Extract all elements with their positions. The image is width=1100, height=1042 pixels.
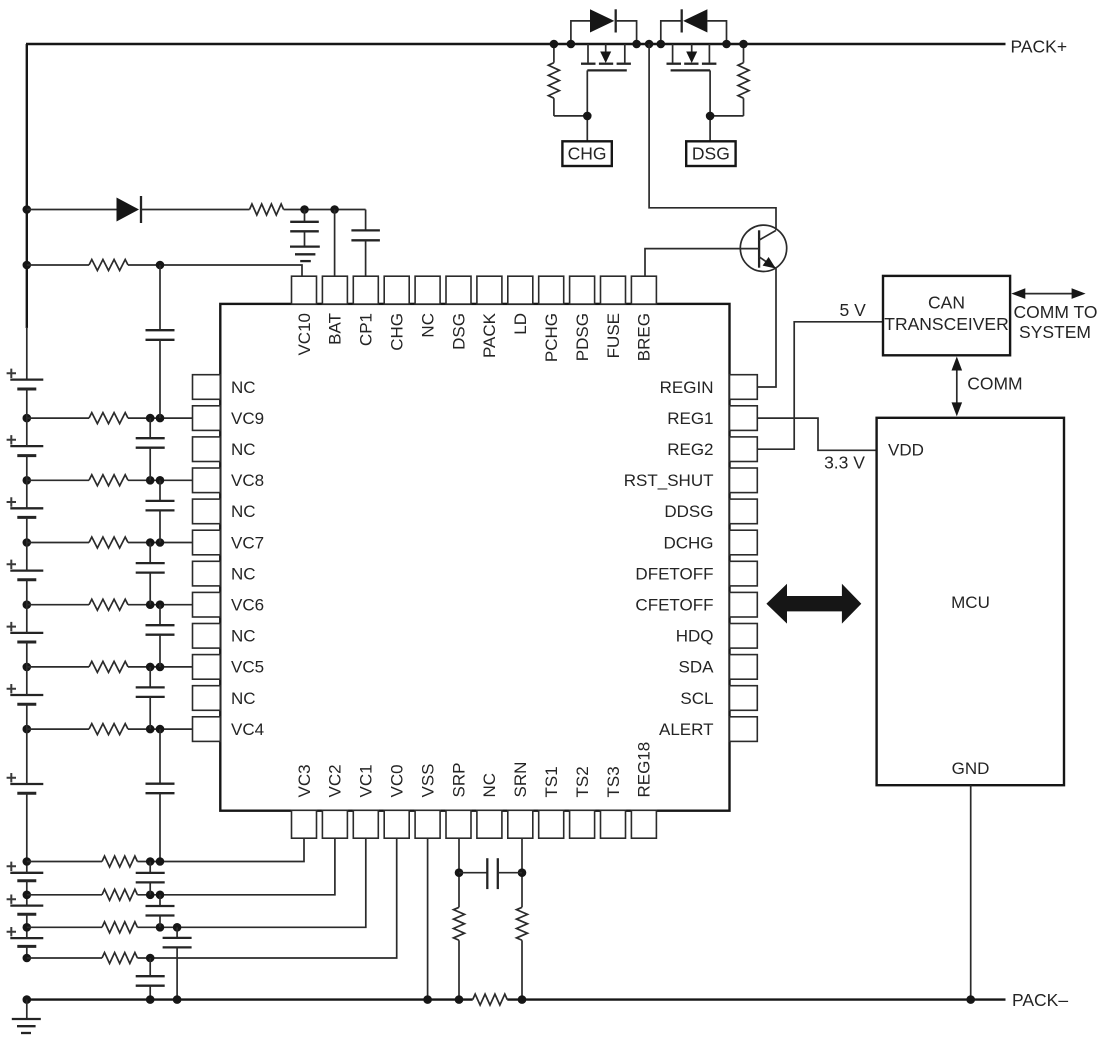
pin left VC5 bbox=[193, 655, 265, 680]
capacitor VC9-VC8 filter bbox=[136, 418, 165, 480]
node CAN transceiver box bbox=[883, 276, 1010, 355]
wire VC4 tap bbox=[27, 728, 89, 730]
svg-text:REG1: REG1 bbox=[667, 409, 713, 428]
battery cell 1 bbox=[7, 369, 44, 389]
wire battery stack top segment bbox=[26, 44, 28, 328]
pin top PCHG bbox=[539, 276, 564, 362]
capacitor VC5-VC4 filter bbox=[136, 667, 165, 729]
resistor SRP sense filter bbox=[454, 907, 465, 940]
wire SRN pin lead bbox=[521, 839, 523, 908]
junction VC1 left cap bbox=[156, 923, 165, 932]
wire SRP pin lead bbox=[458, 839, 460, 908]
wire diode to resistor bbox=[141, 209, 250, 211]
wire battery cell 4 bottom lead bbox=[26, 580, 28, 605]
pin right DDSG bbox=[664, 499, 757, 524]
svg-text:CFETOFF: CFETOFF bbox=[635, 596, 713, 615]
svg-text:RST_SHUT: RST_SHUT bbox=[624, 471, 714, 490]
resistor BAT filter bbox=[250, 204, 284, 215]
junction battery VC0 tap bbox=[23, 954, 32, 963]
svg-text:NC: NC bbox=[231, 502, 256, 521]
pin left NC bbox=[193, 499, 256, 524]
svg-text:TRANSCEIVER: TRANSCEIVER bbox=[884, 314, 1008, 334]
wire battery cell 3 bottom lead bbox=[26, 517, 28, 542]
junction battery VC7 tap bbox=[23, 538, 32, 547]
wire battery link 8 bbox=[26, 895, 28, 906]
wire PACK- rail left bbox=[27, 998, 473, 1000]
pin bottom TS1 bbox=[539, 766, 564, 838]
junction CHG gate node bbox=[583, 112, 592, 121]
transistor Q3 NPN bbox=[740, 225, 786, 271]
capacitor VC6-VC5 filter bbox=[146, 605, 175, 667]
battery cell 10 bbox=[7, 927, 44, 946]
diode D1 BAT input bbox=[117, 196, 142, 223]
pin bottom VC2 bbox=[322, 764, 347, 838]
pin right REG2 bbox=[667, 437, 757, 462]
junction battery top BAT net bbox=[23, 205, 32, 214]
pin top VC10 bbox=[292, 276, 317, 355]
wire VC6 to pin bbox=[128, 604, 193, 606]
junction VSS rail bbox=[423, 995, 432, 1004]
pin left NC bbox=[193, 561, 256, 586]
wire VC3 to pin bbox=[137, 839, 304, 862]
transistor CHG MOSFET body diode bbox=[571, 9, 637, 44]
wire PACK- rail right bbox=[507, 998, 1005, 1000]
pin bottom SRP bbox=[446, 763, 471, 839]
wire BAT node bbox=[284, 209, 366, 211]
capacitor CP1 series bbox=[351, 210, 380, 277]
wire battery link 1 bbox=[26, 418, 28, 446]
pin left VC6 bbox=[193, 592, 265, 617]
pin right SCL bbox=[680, 686, 757, 711]
wire battery link 7 bbox=[26, 862, 28, 873]
svg-text:NC: NC bbox=[480, 773, 499, 798]
junction battery VC5 tap bbox=[23, 663, 32, 672]
pin right CFETOFF bbox=[635, 592, 757, 617]
pin top BAT bbox=[322, 276, 347, 345]
capacitor VC0 to PACK- filter bbox=[136, 958, 165, 1000]
junction SRP cap node bbox=[455, 868, 464, 877]
svg-text:REG2: REG2 bbox=[667, 440, 713, 459]
junction VC4 left cap column bbox=[146, 725, 155, 734]
capacitor BAT bypass bbox=[290, 210, 319, 247]
transistor CHG MOSFET Q1 bbox=[581, 44, 631, 70]
capacitor VC4-VC3 filter bbox=[146, 729, 175, 861]
svg-text:NC: NC bbox=[231, 440, 256, 459]
wire VC10 net bbox=[27, 264, 89, 266]
pin right ALERT bbox=[659, 717, 757, 742]
battery cell 4 bbox=[7, 560, 44, 580]
svg-text:VC6: VC6 bbox=[231, 596, 264, 615]
pin top DSG bbox=[446, 276, 471, 350]
wire DSG gate lead bbox=[709, 70, 711, 141]
capacitor VC2-VC1 filter bbox=[146, 895, 175, 928]
junction battery VC3 tap bbox=[23, 857, 32, 866]
wire VC5 to pin bbox=[128, 666, 193, 668]
resistor SRN sense filter bbox=[517, 907, 528, 940]
transistor DSG MOSFET Q2 bbox=[667, 44, 717, 70]
junction CHG rail resistor bbox=[550, 40, 559, 49]
junction VC8 right cap column bbox=[156, 476, 165, 485]
battery cell 9 bbox=[7, 895, 44, 915]
transistor DSG MOSFET body diode bbox=[661, 9, 727, 44]
pin right REG1 bbox=[667, 406, 757, 431]
junction VC9 right cap column bbox=[156, 414, 165, 423]
resistor VC4 input bbox=[89, 724, 128, 735]
svg-text:VC0: VC0 bbox=[388, 764, 407, 797]
svg-text:VC1: VC1 bbox=[357, 764, 376, 797]
pin right SDA bbox=[679, 655, 758, 680]
svg-text:PDSG: PDSG bbox=[573, 313, 592, 361]
junction SRN cap node bbox=[518, 868, 527, 877]
capacitor VC10-VC9 filter bbox=[146, 265, 175, 418]
pin left NC bbox=[193, 437, 256, 462]
junction VC6 left cap column bbox=[146, 600, 155, 609]
pin top FUSE bbox=[601, 276, 626, 358]
junction battery VC1 tap bbox=[23, 923, 32, 932]
svg-text:SRN: SRN bbox=[511, 762, 530, 798]
junction VC10 filter cap bbox=[156, 261, 165, 270]
pin right HDQ bbox=[676, 624, 758, 649]
wire CHG gate lead bbox=[586, 70, 588, 141]
wire VC0 to pin bbox=[137, 839, 396, 958]
svg-text:HDQ: HDQ bbox=[676, 627, 714, 646]
pin bottom TS2 bbox=[570, 766, 595, 838]
junction VC5 right cap column bbox=[156, 663, 165, 672]
svg-text:NC: NC bbox=[231, 378, 256, 397]
pin top BREG bbox=[631, 276, 656, 361]
svg-text:SDA: SDA bbox=[679, 658, 715, 677]
wire SRN resistor to rail bbox=[521, 940, 523, 999]
svg-text:BAT: BAT bbox=[326, 313, 345, 345]
svg-text:5 V: 5 V bbox=[840, 300, 867, 320]
pin left VC4 bbox=[193, 717, 265, 742]
ground main bbox=[12, 1019, 41, 1033]
wire battery to ground bbox=[26, 1000, 28, 1019]
svg-text:SRP: SRP bbox=[449, 763, 468, 798]
pin bottom VC3 bbox=[292, 764, 317, 838]
pin bottom VC0 bbox=[384, 764, 409, 838]
pin right DCHG bbox=[663, 530, 757, 555]
wire battery link 2 bbox=[26, 480, 28, 508]
pin right REGIN bbox=[660, 375, 758, 400]
junction battery VC6 tap bbox=[23, 600, 32, 609]
junction DSG diode cathode bbox=[657, 40, 666, 49]
svg-text:PCHG: PCHG bbox=[542, 313, 561, 362]
wire battery cell 5 bottom lead bbox=[26, 642, 28, 667]
junction MCU GND rail bbox=[966, 995, 975, 1004]
svg-text:ALERT: ALERT bbox=[659, 720, 714, 739]
junction rail VC1 cap bbox=[173, 995, 182, 1004]
node COMM TO SYSTEM label bbox=[1014, 302, 1098, 342]
node MCU box bbox=[877, 418, 1064, 785]
junction VC7 right cap column bbox=[156, 538, 165, 547]
svg-text:3.3 V: 3.3 V bbox=[824, 453, 865, 473]
svg-text:PACK–: PACK– bbox=[1012, 990, 1068, 1010]
wire host interface double arrow bbox=[766, 584, 861, 624]
junction VC9 left cap column bbox=[146, 414, 155, 423]
svg-text:NC: NC bbox=[231, 627, 256, 646]
wire battery cell 6 bottom lead bbox=[26, 704, 28, 729]
resistor VC3 input bbox=[102, 856, 137, 867]
resistor VC1 input bbox=[102, 922, 137, 933]
svg-text:LD: LD bbox=[511, 313, 530, 335]
resistor PACK- sense link bbox=[473, 994, 508, 1005]
svg-text:VDD: VDD bbox=[888, 441, 924, 460]
junction VC2 right cap bbox=[156, 891, 165, 900]
pin top NC bbox=[415, 276, 440, 337]
svg-text:TS1: TS1 bbox=[542, 766, 561, 797]
battery cell 6 bbox=[7, 684, 44, 704]
wire battery cell 10 bottom lead bbox=[26, 946, 28, 958]
junction battery VC2 tap bbox=[23, 891, 32, 900]
pin bottom VSS bbox=[415, 763, 440, 838]
node CHG driver box bbox=[562, 141, 611, 166]
capacitor VC8-VC7 filter bbox=[146, 480, 175, 542]
svg-text:NC: NC bbox=[418, 313, 437, 338]
svg-text:CP1: CP1 bbox=[357, 313, 376, 346]
svg-text:CHG: CHG bbox=[568, 144, 607, 164]
wire VC9 tap bbox=[27, 417, 89, 419]
wire battery link 9 bbox=[26, 927, 28, 938]
pin bottom NC bbox=[477, 773, 502, 838]
wire MCU GND to rail bbox=[970, 785, 972, 999]
junction VC0 cap bbox=[146, 954, 155, 963]
pin left NC bbox=[193, 686, 256, 711]
pin left NC bbox=[193, 375, 256, 400]
junction rail VC0 cap bbox=[146, 995, 155, 1004]
pin bottom SRN bbox=[508, 762, 533, 839]
battery cell 5 bbox=[7, 622, 44, 642]
svg-text:VC7: VC7 bbox=[231, 533, 264, 552]
svg-text:SYSTEM: SYSTEM bbox=[1019, 322, 1091, 342]
wire VC7 tap bbox=[27, 542, 89, 544]
junction battery VC9 tap bbox=[23, 414, 32, 423]
wire VC10 to pin bbox=[128, 265, 302, 276]
capacitor sense differential bbox=[459, 858, 522, 889]
pin right DFETOFF bbox=[635, 561, 757, 586]
wire transistor emitter to REGIN bbox=[757, 268, 776, 387]
junction VC4 right cap column bbox=[156, 725, 165, 734]
pin bottom TS3 bbox=[601, 766, 626, 838]
wire VC3 tap bbox=[27, 861, 102, 863]
wire battery link 3 bbox=[26, 543, 28, 571]
svg-text:PACK+: PACK+ bbox=[1011, 36, 1068, 56]
resistor VC0 input bbox=[102, 953, 137, 964]
svg-text:VC2: VC2 bbox=[326, 764, 345, 797]
junction VC5 left cap column bbox=[146, 663, 155, 672]
junction CHG diode cathode bbox=[632, 40, 641, 49]
junction battery VC4 tap bbox=[23, 725, 32, 734]
wire battery link 6 bbox=[26, 729, 28, 784]
battery cell 8 bbox=[7, 862, 44, 881]
pin top LD bbox=[508, 276, 533, 335]
svg-text:REG18: REG18 bbox=[635, 742, 654, 798]
battery cell 3 bbox=[7, 497, 44, 517]
svg-text:PACK: PACK bbox=[480, 312, 499, 358]
wire battery cell 8 bottom lead bbox=[26, 881, 28, 895]
pin right RST_SHUT bbox=[624, 468, 758, 493]
pin left VC7 bbox=[193, 530, 265, 555]
resistor VC5 input bbox=[89, 661, 128, 672]
svg-text:VC5: VC5 bbox=[231, 658, 264, 677]
svg-text:MCU: MCU bbox=[951, 593, 990, 612]
junction VC3 right cap bbox=[156, 857, 165, 866]
pin bottom REG18 bbox=[631, 742, 656, 838]
junction VC8 left cap column bbox=[146, 476, 155, 485]
svg-text:DCHG: DCHG bbox=[663, 533, 713, 552]
capacitor VC3-VC2 filter bbox=[136, 862, 165, 895]
junction VC6 right cap column bbox=[156, 600, 165, 609]
junction battery VC8 tap bbox=[23, 476, 32, 485]
resistor VC6 input bbox=[89, 599, 128, 610]
junction DSG rail resistor bbox=[739, 40, 748, 49]
svg-text:SCL: SCL bbox=[680, 689, 713, 708]
wire FET node to transistor collector bbox=[649, 44, 776, 230]
junction DSG gate node bbox=[706, 112, 715, 121]
svg-text:DSG: DSG bbox=[692, 144, 730, 164]
ground BAT bypass bbox=[290, 247, 320, 262]
svg-text:VC8: VC8 bbox=[231, 471, 264, 490]
junction VC1 right cap bbox=[173, 923, 182, 932]
wire COMM arrow CAN-MCU bbox=[952, 357, 963, 417]
resistor VC8 input bbox=[89, 475, 128, 486]
op-amp U1 battery monitor IC body bbox=[220, 304, 729, 811]
pin bottom VC1 bbox=[353, 764, 378, 838]
svg-text:DFETOFF: DFETOFF bbox=[635, 564, 713, 583]
junction VC7 left cap column bbox=[146, 538, 155, 547]
svg-text:VC10: VC10 bbox=[295, 313, 314, 356]
pin left VC9 bbox=[193, 406, 265, 431]
svg-text:TS3: TS3 bbox=[604, 766, 623, 797]
svg-text:CAN: CAN bbox=[928, 293, 965, 313]
svg-text:REGIN: REGIN bbox=[660, 378, 714, 397]
wire VC4 to pin bbox=[128, 728, 193, 730]
pin top CHG bbox=[384, 276, 409, 351]
junction rail battery bbox=[23, 995, 32, 1004]
wire COMM TO SYSTEM arrow bbox=[1011, 288, 1085, 299]
resistor VC10 input bbox=[89, 260, 128, 271]
svg-text:TS2: TS2 bbox=[573, 766, 592, 797]
battery cell 7 bbox=[7, 773, 44, 793]
wire VC7 to pin bbox=[128, 542, 193, 544]
svg-text:FUSE: FUSE bbox=[604, 313, 623, 358]
svg-text:COMM: COMM bbox=[967, 374, 1022, 394]
junction SRN rail bbox=[518, 995, 527, 1004]
pin left NC bbox=[193, 624, 256, 649]
wire BAT net left bbox=[27, 209, 117, 211]
junction BAT bypass cap bbox=[300, 205, 309, 214]
svg-text:CHG: CHG bbox=[388, 313, 407, 351]
resistor VC2 input bbox=[102, 889, 137, 900]
junction VC2 left cap bbox=[146, 891, 155, 900]
wire VC9 to pin bbox=[128, 417, 193, 419]
wire battery cell 9 bottom lead bbox=[26, 914, 28, 927]
pin left VC8 bbox=[193, 468, 265, 493]
svg-text:DSG: DSG bbox=[449, 313, 468, 350]
pin top CP1 bbox=[353, 276, 378, 346]
wire VC8 tap bbox=[27, 479, 89, 481]
wire VC1 to pin bbox=[137, 839, 365, 928]
wire BAT pin bbox=[334, 210, 336, 277]
capacitor VC7-VC6 filter bbox=[136, 543, 165, 605]
wire battery cell 2 bottom lead bbox=[26, 456, 28, 481]
wire VC2 tap bbox=[27, 894, 102, 896]
junction SRP rail bbox=[455, 995, 464, 1004]
wire VC5 tap bbox=[27, 666, 89, 668]
wire SRP resistor to rail bbox=[458, 940, 460, 999]
wire VSS to rail bbox=[427, 839, 429, 1000]
wire VC6 tap bbox=[27, 604, 89, 606]
wire VC0 tap bbox=[27, 957, 102, 959]
wire REG1 to 3.3V bbox=[757, 418, 877, 450]
svg-text:VC9: VC9 bbox=[231, 409, 264, 428]
svg-text:BREG: BREG bbox=[635, 313, 654, 361]
svg-text:DDSG: DDSG bbox=[664, 502, 713, 521]
pin top PACK bbox=[477, 276, 502, 358]
pin top PDSG bbox=[570, 276, 595, 361]
wire VC1 tap bbox=[27, 926, 102, 928]
svg-text:NC: NC bbox=[231, 564, 256, 583]
resistor VC7 input bbox=[89, 537, 128, 548]
resistor CHG gate pulldown bbox=[548, 44, 587, 116]
wire battery cell 1 bottom lead bbox=[26, 389, 28, 418]
junction BAT pin wire bbox=[330, 205, 339, 214]
junction battery VC10 net bbox=[23, 261, 32, 270]
wire battery link 5 bbox=[26, 667, 28, 695]
battery cell 2 bbox=[7, 435, 44, 456]
capacitor VC1 to PACK- filter bbox=[163, 927, 192, 999]
svg-text:VC3: VC3 bbox=[295, 764, 314, 797]
wire PACK+ rail bbox=[26, 43, 1006, 45]
wire battery cell 7 bottom lead bbox=[26, 793, 28, 861]
svg-text:VSS: VSS bbox=[418, 763, 437, 797]
junction CHG diode anode bbox=[567, 40, 576, 49]
junction DSG diode anode bbox=[722, 40, 731, 49]
junction VC3 left cap bbox=[146, 857, 155, 866]
svg-text:GND: GND bbox=[952, 759, 990, 778]
wire VC2 to pin bbox=[137, 839, 335, 895]
svg-text:COMM TO: COMM TO bbox=[1014, 302, 1098, 322]
wire VC8 to pin bbox=[128, 479, 193, 481]
svg-text:VC4: VC4 bbox=[231, 720, 264, 739]
wire battery link 4 bbox=[26, 605, 28, 633]
wire BREG to transistor base bbox=[645, 249, 759, 277]
wire REG2 to 5V bbox=[757, 322, 883, 449]
resistor VC9 input bbox=[89, 413, 128, 424]
resistor DSG gate pulldown bbox=[710, 44, 749, 116]
node DSG driver box bbox=[686, 141, 735, 166]
junction FET common node bbox=[645, 40, 654, 49]
svg-text:NC: NC bbox=[231, 689, 256, 708]
